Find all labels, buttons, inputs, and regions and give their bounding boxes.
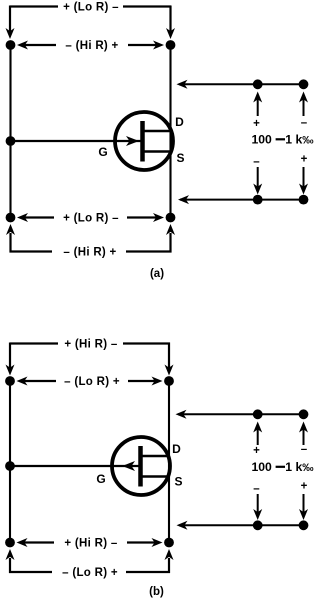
svg-text:– (Lo R) +: – (Lo R) +: [64, 376, 120, 388]
wire: up arrow left (a): [257, 96, 259, 116]
svg-text:– (Hi R) +: – (Hi R) +: [63, 247, 116, 259]
arrowhead: down arrow left (b): [253, 509, 262, 520]
wire: ohmmeter top lead (a): [179, 83, 304, 85]
node: ohmmeter top left probe (b): [253, 409, 263, 419]
transistor Q2: source lead (b): [142, 475, 169, 477]
svg-text:1 k‰: 1 k‰: [285, 133, 314, 147]
arrowhead: down arrow left (a): [253, 184, 262, 195]
node: left row2 (a): [6, 40, 16, 50]
wire: down arrow left (b): [257, 494, 259, 513]
arrowhead: ohmmeter top lead left (a): [177, 80, 188, 89]
svg-text:+ (Lo R) –: + (Lo R) –: [63, 213, 119, 225]
wire: top loop line (a): [10, 6, 171, 32]
svg-text:+ (Hi R) –: + (Hi R) –: [64, 538, 117, 550]
svg-text:+: +: [253, 118, 260, 130]
label: meter range 100-1k (a): [252, 133, 315, 147]
svg-text:100: 100: [252, 133, 273, 147]
arrowhead: up arrow left (b): [253, 422, 262, 433]
arrowhead: row3 left (b): [17, 538, 28, 547]
label: meter range 100-1k (b): [252, 460, 315, 474]
node: ohmmeter bottom right probe (a): [299, 195, 309, 205]
wire: up arrow right (a): [303, 96, 305, 116]
transistor Q1: channel bar (a): [140, 121, 145, 162]
node: ohmmeter bottom left probe (b): [253, 520, 263, 530]
arrowhead: row2 right (a): [153, 41, 164, 50]
node: ohmmeter bottom right probe (b): [299, 520, 309, 530]
arrowhead: gate arrow (a): [126, 136, 139, 146]
arrowhead: row3 right (b): [152, 538, 163, 547]
node: right row2 (b): [164, 376, 174, 386]
wire: ohmmeter top lead (b): [178, 413, 304, 415]
wire: bottom loop line (a): [10, 233, 172, 253]
wire: bottom loop line (b): [9, 558, 170, 573]
svg-text:D: D: [175, 115, 184, 129]
transistor Q2: channel bar (b): [138, 446, 143, 487]
arrowhead: gate arrow (b): [122, 461, 135, 471]
svg-text:+ (Lo R) –: + (Lo R) –: [63, 2, 119, 14]
arrowhead: row3 right (a): [153, 213, 164, 222]
node: ohmmeter top right probe (b): [299, 409, 309, 419]
arrowhead: bottom loop up-left (b): [6, 549, 15, 560]
wire: ohmmeter bottom lead (a): [180, 199, 304, 201]
node: left row3 (a): [6, 213, 16, 223]
wire: up arrow left (b): [257, 426, 259, 445]
wire: gate lead (a): [11, 140, 142, 142]
arrowhead: row2 left (a): [17, 41, 28, 50]
node: gate junction (b): [5, 461, 15, 471]
svg-text:D: D: [172, 442, 181, 456]
wire: third row line (b): [24, 541, 156, 543]
svg-text:100: 100: [252, 460, 273, 474]
svg-text:– (Lo R) +: – (Lo R) +: [62, 567, 118, 579]
svg-text:1 k‰: 1 k‰: [285, 460, 314, 474]
arrowhead: ohmmeter bottom lead left (b): [177, 521, 188, 530]
svg-text:G: G: [96, 472, 105, 486]
wire: third row line (a): [24, 216, 157, 218]
node: ohmmeter top right probe (a): [299, 79, 309, 89]
node: right row3 (b): [164, 538, 174, 548]
svg-text:–: –: [301, 444, 308, 456]
svg-text:–: –: [253, 483, 260, 495]
arrowhead: top loop down-left (b): [6, 365, 15, 376]
arrowhead: up arrow left (a): [253, 92, 262, 103]
wire: right rail (a): [169, 45, 171, 218]
wire: top loop line (b): [10, 343, 170, 369]
arrowhead: row2 right (b): [152, 377, 163, 386]
wire: left rail (a): [9, 45, 11, 218]
svg-text:G: G: [98, 145, 107, 159]
svg-text:+: +: [301, 154, 308, 166]
wire: down arrow right (b): [303, 494, 305, 513]
svg-text:(a): (a): [150, 268, 164, 280]
node: ohmmeter top left probe (a): [253, 79, 263, 89]
svg-text:(b): (b): [149, 586, 164, 598]
wire: up arrow right (b): [303, 426, 305, 445]
wire: down arrow right (a): [303, 167, 305, 187]
wire: second row line (b): [24, 380, 156, 382]
wire: ohmmeter bottom lead (b): [179, 524, 304, 526]
svg-text:–: –: [253, 156, 260, 168]
arrowhead: top loop down-left (a): [6, 28, 15, 39]
arrowhead: down arrow right (a): [299, 184, 308, 195]
svg-text:+: +: [301, 481, 308, 493]
arrowhead: bottom loop up-right (a): [166, 224, 175, 235]
svg-text:– (Hi R) +: – (Hi R) +: [65, 40, 118, 52]
arrowhead: bottom loop up-right (b): [165, 549, 174, 560]
node: right row3 (a): [166, 213, 176, 223]
transistor Q1: n-channel JFET circle (a): [115, 112, 173, 170]
transistor Q1: source lead (a): [144, 150, 171, 152]
svg-text:+ (Hi R) –: + (Hi R) –: [64, 339, 117, 351]
arrowhead: ohmmeter bottom lead left (a): [178, 195, 189, 204]
wire: gate lead (b): [10, 465, 139, 467]
transistor Q1: drain lead (a): [144, 130, 171, 132]
transistor Q2: drain lead (b): [142, 455, 169, 457]
wire: right rail (b): [168, 381, 170, 543]
arrowhead: top loop down-right (b): [165, 365, 174, 376]
arrowhead: ohmmeter top lead left (b): [176, 410, 187, 419]
arrowhead: bottom loop up-left (a): [6, 224, 15, 235]
node: ohmmeter bottom left probe (a): [253, 195, 263, 205]
arrowhead: up arrow right (a): [299, 92, 308, 103]
wire: left rail (b): [9, 381, 11, 543]
svg-text:–: –: [301, 117, 308, 129]
node: left row3 (b): [5, 538, 15, 548]
transistor Q2: p-channel JFET circle (b): [112, 437, 170, 495]
svg-text:S: S: [176, 151, 184, 165]
arrowhead: down arrow right (b): [299, 509, 308, 520]
node: right row2 (a): [166, 40, 176, 50]
arrowhead: row3 left (a): [17, 213, 28, 222]
node: left row2 (b): [5, 376, 15, 386]
node: gate junction (a): [6, 136, 16, 146]
svg-text:+: +: [253, 445, 260, 457]
svg-text:S: S: [174, 475, 182, 489]
arrowhead: row2 left (b): [17, 377, 28, 386]
wire: down arrow left (a): [257, 167, 259, 187]
arrowhead: top loop down-right (a): [166, 28, 175, 39]
wire: second row line (a): [24, 44, 157, 46]
arrowhead: up arrow right (b): [299, 422, 308, 433]
